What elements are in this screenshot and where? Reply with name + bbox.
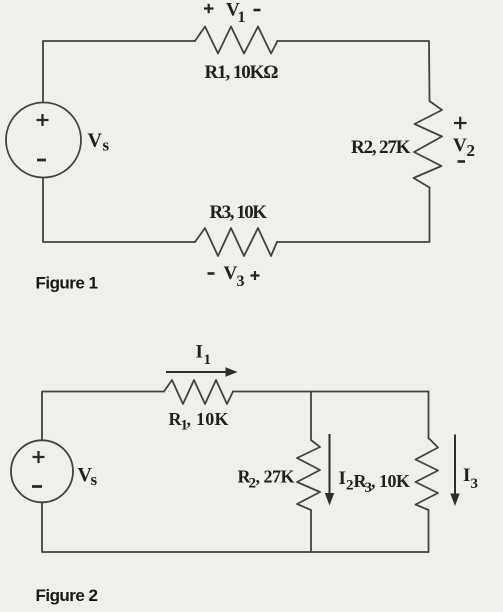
svg-text:, 10K: , 10K <box>371 471 410 491</box>
svg-text:2: 2 <box>346 478 354 494</box>
wire: middle branch bottom <box>310 510 312 552</box>
wire: top-right segment (fig 2) <box>233 391 429 393</box>
resistor R2 zigzag <box>414 101 443 188</box>
polarity - of V2 <box>458 160 466 163</box>
svg-text:1: 1 <box>204 352 212 368</box>
plus sign inside source (fig 2) <box>33 451 45 463</box>
wire: middle branch top <box>310 392 312 441</box>
polarity + of V2 <box>454 117 467 129</box>
voltage source Vs circle (fig 2) <box>11 440 73 502</box>
resistor R3 zigzag (fig 2) <box>416 438 439 510</box>
minus sign inside source (fig 1) <box>37 159 46 162</box>
wire: right-bottom segment <box>277 188 430 243</box>
polarity + of V1 <box>204 4 214 13</box>
svg-text:, 27K: , 27K <box>256 467 295 487</box>
svg-text:R3, 10K: R3, 10K <box>210 202 268 223</box>
svg-text:V: V <box>88 130 103 152</box>
wire: top-right segment <box>277 41 430 101</box>
svg-text:3: 3 <box>237 273 245 290</box>
svg-text:R2, 27K: R2, 27K <box>351 137 411 158</box>
svg-text:I: I <box>339 468 346 489</box>
wire: top-left segment (fig 2) <box>42 392 164 441</box>
svg-text:Figure 1: Figure 1 <box>36 274 99 293</box>
wire: bottom-left segment <box>43 178 195 243</box>
polarity + of V3 <box>251 271 260 280</box>
resistor R2 zigzag (fig 2) <box>297 440 320 510</box>
svg-text:1: 1 <box>238 9 246 26</box>
minus sign inside source (fig 2) <box>32 485 42 488</box>
voltage source Vs circle (fig 1) <box>6 103 81 178</box>
plus sign inside source (fig 1) <box>37 114 49 126</box>
resistor R1 zigzag (fig 2) <box>164 380 233 404</box>
svg-text:s: s <box>91 470 98 489</box>
current arrow I1 <box>166 367 238 377</box>
svg-text:V: V <box>224 263 238 284</box>
polarity - of V3 <box>208 272 215 275</box>
svg-text:Figure 2: Figure 2 <box>36 586 99 605</box>
svg-text:I: I <box>463 465 470 486</box>
current arrow I3 <box>450 435 459 507</box>
svg-text:R1, 10KΩ: R1, 10KΩ <box>205 62 279 83</box>
svg-text:I: I <box>196 342 203 363</box>
wire: top-left segment <box>43 41 195 103</box>
wire: bottom rail (fig 2) <box>42 502 429 552</box>
svg-text:, 10K: , 10K <box>187 409 229 429</box>
svg-text:s: s <box>103 136 110 155</box>
svg-text:3: 3 <box>471 476 479 492</box>
resistor R3 zigzag <box>195 228 277 256</box>
polarity - of V1 <box>254 9 261 12</box>
svg-text:2: 2 <box>467 141 476 160</box>
wire: right branch bottom <box>428 510 430 552</box>
wire: right branch top <box>428 392 430 439</box>
current arrow I2 <box>325 434 334 506</box>
resistor R1 zigzag <box>195 27 278 54</box>
svg-text:V: V <box>453 135 467 156</box>
